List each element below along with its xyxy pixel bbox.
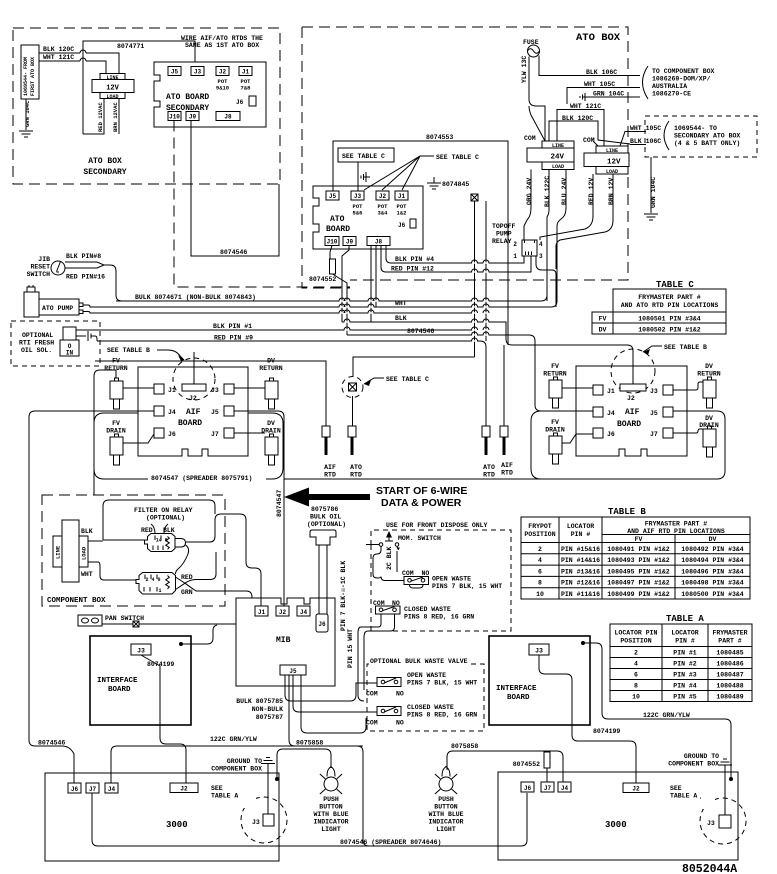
svg-text:J2: J2 bbox=[627, 395, 635, 402]
wire 8075858 (left) bbox=[277, 740, 331, 780]
connector J8 (ATO board) bbox=[367, 237, 390, 246]
boxed label SEE TABLE C bbox=[338, 148, 394, 191]
wire relay pin3 bbox=[536, 256, 556, 307]
connector 1069544- FROM FIRST ATO BOX bbox=[21, 45, 39, 99]
svg-text:12V: 12V bbox=[607, 158, 621, 166]
svg-text:LOCATOR: LOCATOR bbox=[567, 523, 594, 530]
connector J3 (right interface) bbox=[529, 644, 549, 655]
connector J6 (MIB) bbox=[316, 614, 328, 632]
label RED PIN#16 bbox=[66, 274, 105, 281]
wire from J10 (dashed continuation) bbox=[174, 121, 350, 288]
svg-text:J2: J2 bbox=[379, 193, 387, 200]
controller 3000 (left) bbox=[45, 773, 279, 861]
svg-text:5&6: 5&6 bbox=[353, 210, 363, 217]
svg-text:1080488: 1080488 bbox=[716, 683, 743, 690]
svg-text:8074553: 8074553 bbox=[426, 134, 453, 141]
svg-text:8052044A: 8052044A bbox=[682, 863, 737, 874]
svg-text:3000: 3000 bbox=[166, 820, 188, 830]
svg-text:RTD: RTD bbox=[324, 472, 336, 479]
svg-text:AUSTRALIA: AUSTRALIA bbox=[652, 83, 687, 90]
svg-text:J7: J7 bbox=[650, 431, 658, 438]
svg-text:122C GRN/YLW: 122C GRN/YLW bbox=[210, 736, 257, 743]
connector J1 POT 7&8 bbox=[239, 67, 252, 92]
svg-text:RTI FRESH: RTI FRESH bbox=[19, 340, 54, 347]
svg-text:GROUND TO: GROUND TO bbox=[227, 758, 262, 765]
svg-text:DV: DV bbox=[705, 415, 713, 422]
svg-text:PIN #15&16: PIN #15&16 bbox=[561, 546, 600, 553]
connector J10 (secondary) bbox=[168, 112, 181, 121]
svg-text:WHT 121C: WHT 121C bbox=[43, 54, 74, 61]
svg-text:BLK 120C: BLK 120C bbox=[43, 46, 74, 53]
svg-text:LINE: LINE bbox=[106, 75, 118, 81]
svg-text:FRYMASTER PART #: FRYMASTER PART # bbox=[645, 521, 708, 528]
svg-text:LINE: LINE bbox=[55, 545, 62, 559]
svg-text:LIGHT: LIGHT bbox=[321, 826, 341, 833]
node on left interface board bbox=[179, 625, 217, 646]
svg-text:BOARD: BOARD bbox=[326, 225, 350, 234]
wire YLW 13C from fuse bbox=[521, 56, 545, 141]
svg-text:FUSE: FUSE bbox=[523, 39, 539, 46]
svg-text:BLK PIN #4: BLK PIN #4 bbox=[395, 256, 434, 263]
bus BLK (pump) bbox=[83, 312, 474, 314]
table B bbox=[521, 507, 750, 599]
push button with blue indicator light (right) bbox=[428, 767, 463, 834]
transformer 12V (main) bbox=[584, 146, 629, 175]
harness outline (right AIF assembly) bbox=[531, 411, 541, 479]
fuse 8074552 under J10 bbox=[309, 246, 347, 336]
svg-text:WHT: WHT bbox=[395, 300, 407, 307]
svg-text:J10: J10 bbox=[327, 239, 338, 246]
svg-text:1069544- FROM: 1069544- FROM bbox=[23, 57, 29, 96]
svg-text:J3: J3 bbox=[707, 820, 715, 827]
connector J4 (left AIF) bbox=[154, 406, 176, 416]
svg-text:COMPONENT BOX: COMPONENT BOX bbox=[47, 597, 106, 605]
ATO BOARD SECONDARY bbox=[154, 62, 266, 127]
wire J8 pin to BLK bus bbox=[370, 246, 372, 323]
svg-text:SWITCH: SWITCH bbox=[27, 271, 51, 278]
svg-text:122C GRN/YLW: 122C GRN/YLW bbox=[643, 712, 690, 719]
svg-text:AND ATO RTD PIN LOCATIONS: AND ATO RTD PIN LOCATIONS bbox=[621, 302, 719, 309]
svg-text:2 4 0: 2 4 0 bbox=[146, 577, 161, 583]
svg-text:J4: J4 bbox=[300, 609, 308, 616]
svg-text:PIN #: PIN # bbox=[675, 638, 695, 645]
wire RED 12V bbox=[540, 174, 595, 240]
label BULK 8075785 bbox=[236, 698, 283, 721]
bus BULK 8074671 (NON-BULK 8074843) bbox=[116, 294, 547, 301]
svg-text:J7: J7 bbox=[89, 786, 97, 793]
harness outline (left AIF assembly) bbox=[94, 413, 283, 479]
AIF RTD probe (left) bbox=[95, 361, 336, 479]
wire relay1 to relay2 bbox=[176, 545, 189, 574]
svg-text:RETURN: RETURN bbox=[543, 371, 567, 378]
svg-text:J4: J4 bbox=[561, 785, 569, 792]
svg-text:RTD: RTD bbox=[350, 472, 362, 479]
label SEE TABLE C (RTD) bbox=[364, 376, 429, 386]
connector J5 (right AIF) bbox=[650, 407, 673, 417]
svg-text:J1: J1 bbox=[607, 388, 615, 395]
transformer 24V bbox=[527, 141, 574, 170]
svg-text:(OPTIONAL): (OPTIONAL) bbox=[146, 515, 185, 522]
svg-text:J4: J4 bbox=[168, 409, 176, 416]
table C title bbox=[656, 280, 694, 290]
wire BLK PIN#8 bbox=[65, 253, 122, 301]
svg-text:8: 8 bbox=[634, 683, 638, 690]
svg-text:BULK 8074671 (NON-BULK 8074843: BULK 8074671 (NON-BULK 8074843) bbox=[135, 294, 256, 301]
wire left 3000 J4 up to 122C bbox=[111, 746, 369, 846]
wire 8074546 SPREADER 8074646 bbox=[92, 793, 527, 846]
svg-text:BLK PIN #1: BLK PIN #1 bbox=[213, 323, 252, 330]
controller 3000 (right) bbox=[498, 772, 738, 860]
svg-text:YLW 13C: YLW 13C bbox=[521, 56, 528, 83]
svg-text:RTD: RTD bbox=[501, 470, 513, 477]
svg-text:BLK 106C: BLK 106C bbox=[630, 138, 661, 145]
wire left AIF J4 to left rail bbox=[29, 411, 154, 740]
connector J10 (ATO board) bbox=[325, 237, 339, 246]
svg-text:PIN #: PIN # bbox=[571, 531, 591, 538]
RTI wires to buses bbox=[76, 330, 97, 341]
fuse bbox=[523, 39, 540, 57]
svg-text:3000: 3000 bbox=[605, 820, 627, 830]
svg-text:J3: J3 bbox=[650, 388, 658, 395]
node on right interface board bbox=[581, 641, 585, 645]
svg-text:INTERFACE: INTERFACE bbox=[97, 677, 138, 685]
bus BLK PIN #1 bbox=[76, 323, 474, 330]
svg-text:1080486: 1080486 bbox=[716, 661, 743, 668]
svg-text:1080501 PIN #3&4: 1080501 PIN #3&4 bbox=[638, 316, 701, 323]
svg-text:PUSH: PUSH bbox=[323, 796, 339, 803]
svg-text:PIN #2: PIN #2 bbox=[673, 661, 697, 668]
svg-text:BRN 12V: BRN 12V bbox=[608, 178, 615, 205]
svg-text:J6: J6 bbox=[71, 786, 79, 793]
svg-text:PINS 7 BLK, 15 WHT: PINS 7 BLK, 15 WHT bbox=[407, 680, 477, 687]
svg-text:POSITION: POSITION bbox=[524, 531, 555, 538]
ATO BOX enclosure (dashed) bbox=[302, 27, 628, 288]
interface board (right) bbox=[489, 636, 590, 725]
svg-text:BLK PIN#8: BLK PIN#8 bbox=[66, 253, 101, 260]
svg-text:J1: J1 bbox=[168, 387, 176, 394]
svg-text:IN: IN bbox=[66, 350, 74, 357]
svg-text:OPTIONAL BULK WASTE VALVE: OPTIONAL BULK WASTE VALVE bbox=[370, 658, 468, 665]
svg-text:AND AIF RTD PIN LOCATIONS: AND AIF RTD PIN LOCATIONS bbox=[627, 528, 725, 535]
svg-text:J1: J1 bbox=[242, 69, 250, 76]
svg-text:TABLE A: TABLE A bbox=[211, 793, 238, 800]
switch OPEN WASTE (bulk) bbox=[366, 672, 477, 698]
svg-text:GROUND TO: GROUND TO bbox=[684, 753, 719, 760]
svg-text:GRN 104C: GRN 104C bbox=[24, 100, 31, 127]
relay 2 (filter relay) bbox=[136, 573, 185, 595]
svg-text:RESET: RESET bbox=[30, 264, 50, 271]
svg-text:LOAD: LOAD bbox=[606, 169, 618, 175]
svg-text:FIRST ATO BOX: FIRST ATO BOX bbox=[30, 57, 36, 96]
fuse 8074552 (right) bbox=[513, 752, 550, 782]
connector J5 (left AIF) bbox=[211, 406, 234, 416]
svg-text:1080498 PIN #3&4: 1080498 PIN #3&4 bbox=[681, 580, 744, 587]
svg-text:COM: COM bbox=[583, 137, 595, 144]
switch OPEN WASTE (front dispose) bbox=[402, 570, 502, 590]
solenoid DV DRAIN (left) bbox=[234, 420, 281, 465]
svg-text:J3: J3 bbox=[137, 648, 145, 655]
connector J4 (left 3000) bbox=[105, 783, 118, 793]
svg-text:RELAY: RELAY bbox=[492, 238, 512, 245]
svg-text:24V: 24V bbox=[551, 154, 565, 162]
svg-text:J5: J5 bbox=[171, 69, 179, 76]
wire J8 pin to RED PIN #12 bbox=[381, 246, 531, 273]
labels RED BLK (relay1) bbox=[141, 524, 175, 534]
svg-text:J6: J6 bbox=[236, 99, 244, 106]
connector J3 (left AIF) bbox=[211, 384, 234, 394]
svg-text:SEE TABLE C: SEE TABLE C bbox=[386, 376, 429, 383]
svg-text:LOCATOR: LOCATOR bbox=[671, 630, 698, 637]
svg-text:RETURN: RETURN bbox=[259, 365, 283, 372]
ATO RTD probe (left) bbox=[348, 396, 362, 479]
connector J4 (right AIF) bbox=[593, 407, 615, 417]
svg-text:AIF: AIF bbox=[501, 462, 513, 469]
ATO BOX SECONDARY enclosure (dashed) bbox=[13, 28, 280, 184]
svg-text:J6: J6 bbox=[168, 431, 176, 438]
bulk oil sensor 8075786 bbox=[307, 506, 346, 528]
svg-text:DV: DV bbox=[705, 363, 713, 370]
wire J8 pin to BLK PIN #4 bbox=[386, 246, 524, 264]
svg-text:FV: FV bbox=[551, 363, 559, 370]
svg-text:WHT: WHT bbox=[81, 571, 93, 578]
svg-text:J2: J2 bbox=[189, 395, 197, 402]
label SEE TABLE A (left) bbox=[211, 785, 252, 806]
chassis ground mark on GRN 104C bbox=[580, 93, 589, 101]
svg-text:3: 3 bbox=[539, 253, 543, 260]
svg-text:BLK 122C: BLK 122C bbox=[544, 176, 551, 207]
svg-text:PIN #13&16: PIN #13&16 bbox=[561, 568, 600, 575]
svg-text:BULK OIL: BULK OIL bbox=[310, 514, 341, 521]
svg-text:1: 1 bbox=[513, 253, 517, 260]
svg-text:TABLE A: TABLE A bbox=[666, 614, 704, 624]
svg-text:WITH BLUE: WITH BLUE bbox=[428, 811, 463, 818]
svg-text:PUMP: PUMP bbox=[496, 231, 512, 238]
wire WHT 121C bbox=[39, 54, 106, 74]
svg-text:OIL SOL.: OIL SOL. bbox=[21, 347, 52, 354]
svg-text:OPEN WASTE: OPEN WASTE bbox=[432, 576, 471, 583]
COMPONENT BOX enclosure (dashed) bbox=[42, 495, 225, 606]
svg-text:INDICATOR: INDICATOR bbox=[313, 819, 348, 826]
connector J7 (right AIF) bbox=[650, 428, 673, 438]
svg-text:FILTER ON RELAY: FILTER ON RELAY bbox=[134, 507, 193, 514]
wire BLK 106C to component box bbox=[539, 56, 640, 77]
svg-text:10: 10 bbox=[536, 591, 544, 598]
svg-text:LOCATOR PIN: LOCATOR PIN bbox=[615, 630, 658, 637]
solenoid FV RETURN (right) bbox=[543, 363, 593, 408]
svg-text:ATO BOX: ATO BOX bbox=[88, 157, 122, 166]
svg-text:AIF: AIF bbox=[186, 408, 201, 417]
svg-text:CLOSED WASTE: CLOSED WASTE bbox=[407, 704, 454, 711]
svg-text:1080502 PIN #1&2: 1080502 PIN #1&2 bbox=[638, 327, 701, 334]
svg-text:(4 & 5 BATT ONLY): (4 & 5 BATT ONLY) bbox=[674, 140, 740, 147]
connector J2 POT 9&10 bbox=[216, 67, 229, 92]
svg-text:TOPOFF: TOPOFF bbox=[492, 223, 516, 230]
svg-text:BLU 24V: BLU 24V bbox=[561, 178, 568, 205]
svg-text:J5: J5 bbox=[211, 409, 219, 416]
svg-text:OPTIONAL: OPTIONAL bbox=[22, 332, 53, 339]
wire 8074771 (J5 to transformer) bbox=[83, 41, 195, 134]
connector J1 (left AIF) bbox=[154, 384, 176, 394]
wire J3 right interface to 3000 J2 (8074199) bbox=[539, 655, 636, 783]
svg-text:1080491 PIN #1&2: 1080491 PIN #1&2 bbox=[607, 546, 670, 553]
svg-text:J3: J3 bbox=[194, 69, 202, 76]
ATO RTD probe (right) bbox=[482, 426, 495, 479]
wire BLK 106C to secondary feed bbox=[630, 138, 661, 145]
label 8074199 (left) bbox=[147, 661, 174, 668]
svg-text:1080485: 1080485 bbox=[716, 650, 743, 657]
bus 8074546 bbox=[347, 328, 593, 411]
dashed circle J3 (left 3000) bbox=[241, 796, 287, 843]
push button with blue indicator light (left) bbox=[313, 767, 348, 834]
svg-text:1080492 PIN #3&4: 1080492 PIN #3&4 bbox=[681, 546, 744, 553]
junction box symbol (x) on 8074845 wire bbox=[471, 194, 478, 201]
wire pair vertical x486 bbox=[485, 201, 487, 341]
wire left AIF J5 (8074547) down to MIB bbox=[234, 411, 284, 606]
svg-text:GRN 104C: GRN 104C bbox=[593, 91, 624, 98]
svg-text:4: 4 bbox=[538, 557, 542, 564]
wire 8074546 from J9 bbox=[191, 121, 279, 257]
svg-text:COM: COM bbox=[366, 720, 378, 727]
label GROUND TO COMPONENT BOX (left) bbox=[211, 758, 262, 773]
svg-text:J4: J4 bbox=[607, 410, 615, 417]
svg-text:1086269-DOM/XP/: 1086269-DOM/XP/ bbox=[652, 76, 711, 83]
connector hook 1069544 bbox=[664, 121, 669, 150]
pan switch bbox=[78, 615, 144, 626]
svg-text:2: 2 bbox=[513, 241, 517, 248]
connector J4 (MIB) bbox=[297, 606, 310, 616]
svg-text:BRN 12VAC: BRN 12VAC bbox=[112, 102, 119, 132]
connector J7 (right 3000) bbox=[541, 782, 554, 792]
USE FOR FRONT DISPOSE ONLY enclosure bbox=[371, 522, 511, 631]
transformer 12V (secondary) bbox=[92, 74, 134, 100]
svg-text:FRYMASTER PART #: FRYMASTER PART # bbox=[638, 294, 701, 301]
wire BLK 120C bbox=[39, 46, 119, 74]
AIF board (right) bbox=[576, 366, 687, 456]
svg-text:J2: J2 bbox=[632, 786, 640, 793]
dashed circle SEE TABLE C (RTD) bbox=[342, 377, 363, 398]
svg-text:J8: J8 bbox=[224, 114, 232, 121]
svg-text:6: 6 bbox=[634, 672, 638, 679]
cable hook to component box bbox=[643, 66, 649, 99]
svg-text:GRN 104C: GRN 104C bbox=[650, 177, 657, 208]
svg-text:8074546: 8074546 bbox=[407, 328, 434, 335]
label GROUND TO COMPONENT BOX (right) bbox=[668, 753, 719, 768]
svg-text:BOARD: BOARD bbox=[617, 420, 641, 429]
solenoid DV DRAIN (right) bbox=[673, 415, 719, 457]
svg-text:LOAD: LOAD bbox=[81, 546, 88, 560]
svg-text:8074199: 8074199 bbox=[593, 728, 620, 735]
wire RED 12VAC bbox=[83, 99, 104, 135]
svg-text:AIF: AIF bbox=[625, 408, 640, 417]
label SEE TABLE A (right) bbox=[670, 785, 710, 806]
COM label (12V) bbox=[583, 137, 598, 146]
svg-text:1: 1 bbox=[159, 588, 162, 594]
wire 8074553 (J5 run) bbox=[333, 134, 508, 345]
svg-text:DATA & POWER: DATA & POWER bbox=[381, 497, 462, 509]
transformer (component box) bbox=[53, 520, 93, 582]
connector J8 (secondary) bbox=[216, 112, 240, 121]
svg-text:DV: DV bbox=[267, 420, 275, 427]
svg-text:USE FOR FRONT DISPOSE ONLY: USE FOR FRONT DISPOSE ONLY bbox=[386, 522, 488, 529]
svg-text:LOAD: LOAD bbox=[552, 164, 564, 170]
connector J2 (left AIF) bbox=[182, 352, 206, 402]
svg-text:BLK 106C: BLK 106C bbox=[586, 69, 617, 76]
svg-text:PINS 7 BLK, 15 WHT: PINS 7 BLK, 15 WHT bbox=[432, 583, 502, 590]
svg-text:PIN 7 BLK-☒-1C BLK: PIN 7 BLK-☒-1C BLK bbox=[340, 561, 347, 631]
svg-text:8074552: 8074552 bbox=[513, 761, 540, 768]
svg-text:SECONDARY: SECONDARY bbox=[83, 168, 126, 177]
svg-text:PIN #14&16: PIN #14&16 bbox=[561, 557, 600, 564]
dashed circle around J2 (right) bbox=[611, 349, 655, 393]
svg-text:TABLE A: TABLE A bbox=[670, 793, 697, 800]
svg-text:MIB: MIB bbox=[276, 636, 291, 645]
bus RED PIN #9 bbox=[97, 335, 486, 427]
svg-text:COM: COM bbox=[524, 135, 536, 142]
wire WHT 105C to secondary feed bbox=[620, 125, 661, 146]
svg-text:LINE: LINE bbox=[606, 148, 618, 154]
svg-text:2C BLK: 2C BLK bbox=[386, 546, 393, 570]
svg-text:SECONDARY ATO BOX: SECONDARY ATO BOX bbox=[674, 133, 740, 140]
dashed circle J3 (right 3000) bbox=[700, 797, 746, 844]
switch CLOSED WASTE (bulk) bbox=[366, 704, 477, 727]
svg-text:12V: 12V bbox=[106, 85, 119, 93]
svg-text:PINS 8 RED, 16 GRN: PINS 8 RED, 16 GRN bbox=[404, 614, 474, 621]
svg-text:RED PIN#16: RED PIN#16 bbox=[66, 274, 105, 281]
svg-text:J2: J2 bbox=[219, 69, 227, 76]
RTI solenoid component bbox=[60, 327, 79, 357]
svg-text:1080495 PIN #1&2: 1080495 PIN #1&2 bbox=[607, 568, 670, 575]
solenoid FV DRAIN (right) bbox=[545, 419, 593, 464]
junction (x) in RTD circle bbox=[349, 383, 357, 391]
svg-text:DV: DV bbox=[599, 327, 607, 334]
svg-text:RED: RED bbox=[141, 527, 153, 534]
svg-text:8074546: 8074546 bbox=[220, 249, 247, 256]
solenoid FV DRAIN (left) bbox=[106, 420, 154, 465]
svg-text:ORG 24V: ORG 24V bbox=[526, 178, 533, 205]
svg-text:FV: FV bbox=[551, 419, 559, 426]
chassis ground mark near J3 bbox=[361, 172, 370, 182]
svg-text:1069544- TO: 1069544- TO bbox=[674, 125, 717, 132]
JIB reset switch bbox=[27, 256, 65, 278]
label SEE TABLE B (left) bbox=[107, 347, 184, 361]
svg-text:BUTTON: BUTTON bbox=[434, 804, 458, 811]
svg-text:J5: J5 bbox=[650, 410, 658, 417]
svg-text:RTD: RTD bbox=[483, 472, 495, 479]
wire ORG 24V bbox=[524, 170, 533, 241]
connector J2 (MIB) bbox=[276, 606, 289, 616]
svg-text:J9: J9 bbox=[346, 239, 354, 246]
connector J2 (right 3000) bbox=[623, 783, 649, 793]
svg-text:1080500 PIN #3&4: 1080500 PIN #3&4 bbox=[681, 591, 744, 598]
svg-text:8074199: 8074199 bbox=[147, 661, 174, 668]
solenoid FV RETURN (left) bbox=[94, 358, 154, 496]
wire BLK 120C (main box) bbox=[549, 115, 630, 144]
svg-text:4: 4 bbox=[539, 241, 543, 248]
connector J1 (MIB) bbox=[255, 606, 268, 616]
svg-text:9&10: 9&10 bbox=[216, 85, 229, 92]
wire 122C GRN/YLW label (left) bbox=[210, 736, 257, 743]
RTI fresh oil solenoid (optional, dashed) bbox=[11, 321, 100, 366]
svg-text:FV: FV bbox=[635, 536, 643, 543]
svg-text:1080487: 1080487 bbox=[716, 672, 743, 679]
svg-text:TABLE B: TABLE B bbox=[608, 507, 646, 517]
table A bbox=[610, 614, 752, 702]
svg-text:CLOSED WASTE: CLOSED WASTE bbox=[404, 606, 451, 613]
svg-text:PIN #4: PIN #4 bbox=[673, 683, 697, 690]
svg-text:8075787: 8075787 bbox=[256, 714, 283, 721]
svg-text:1080496 PIN #3&4: 1080496 PIN #3&4 bbox=[681, 568, 744, 575]
svg-text:1080499 PIN #1&2: 1080499 PIN #1&2 bbox=[607, 591, 670, 598]
